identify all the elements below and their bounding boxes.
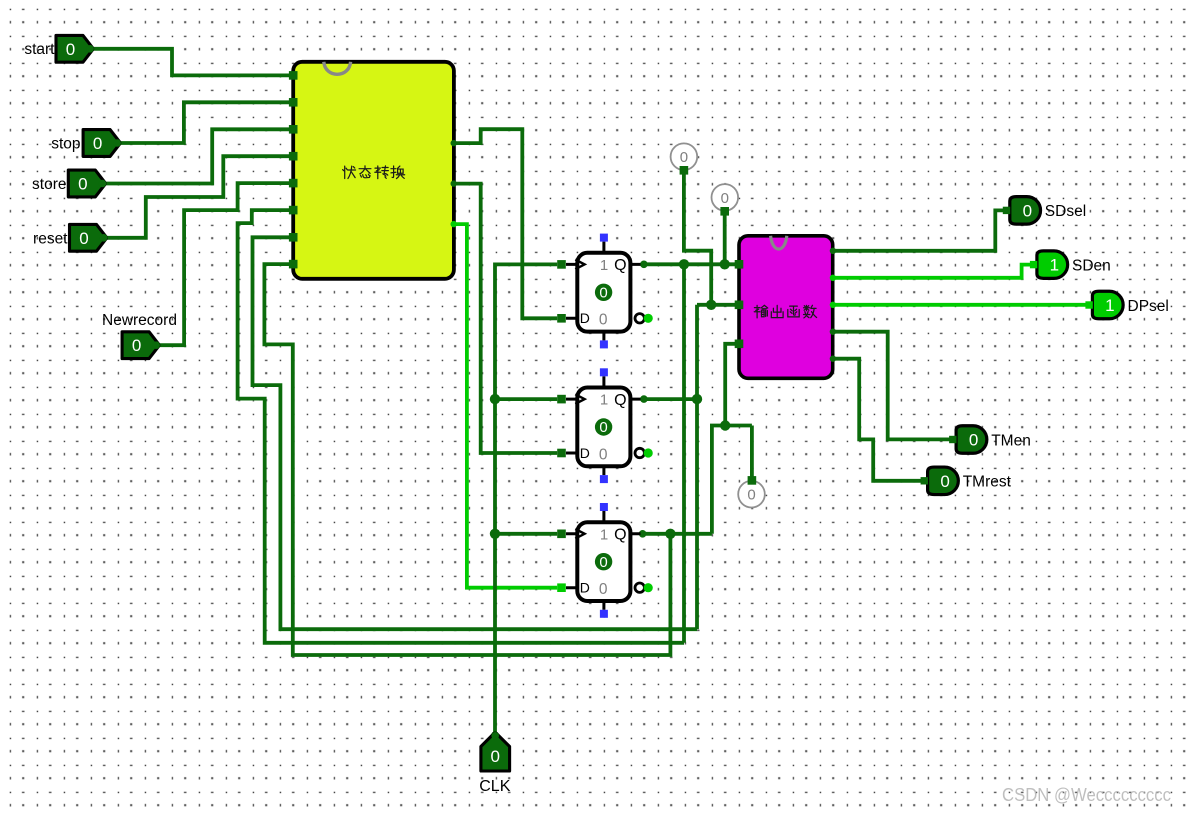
U1 input port 8 (289, 260, 298, 269)
input pin Newrecord (122, 332, 159, 359)
wire CLK branch FF2 (495, 397, 557, 401)
wire FF1 Q to U2 output-function pin1 (641, 262, 740, 266)
probe P1 value 0 (671, 143, 698, 170)
wire FF2 Q vertical riser (695, 305, 699, 629)
wire U2 out5 to TMrest (833, 359, 922, 481)
svg-text:CLK: CLK (479, 778, 510, 795)
junction FF3 Q feedback (665, 529, 675, 539)
svg-text:0: 0 (132, 336, 141, 355)
wire FF3 Q to probe P3 (750, 426, 754, 479)
svg-text:1: 1 (1050, 256, 1059, 275)
junction FF2 Q riser (692, 394, 702, 404)
svg-text:DPsel: DPsel (1128, 298, 1169, 315)
svg-text:Q: Q (614, 257, 626, 274)
svg-text:1: 1 (600, 392, 608, 409)
input pin start (56, 35, 93, 62)
svg-text:store: store (32, 176, 66, 193)
wire FF3 Q riser to node (712, 426, 752, 534)
svg-text:D: D (580, 580, 590, 596)
wire net stop to U1 pin2 (120, 102, 293, 143)
wire U2 out4 to TMen (833, 332, 951, 440)
D flip-flop FF3 (566, 503, 653, 618)
svg-text:0: 0 (599, 446, 608, 463)
svg-text:TMen: TMen (991, 432, 1031, 449)
U2 label 输出函数 (754, 305, 767, 318)
svg-text:CSDN @Weccccccccc: CSDN @Weccccccccc (1002, 785, 1171, 805)
output pin SDen (1037, 251, 1068, 279)
wire net reset to U1 pin4 (103, 156, 294, 238)
U1 label 状态转换 (343, 166, 356, 178)
U1 input port 5 (289, 179, 298, 188)
wire FF1 Q feedback vertical (682, 264, 686, 643)
input pin CLK (481, 733, 510, 771)
input pin reset (70, 224, 107, 251)
U1 input port 1 (289, 71, 298, 80)
U2 input port 1 (735, 260, 744, 269)
svg-text:0: 0 (940, 472, 949, 491)
svg-text:SDsel: SDsel (1045, 203, 1086, 220)
wire U1 out3 to FF3 D (high) (454, 224, 557, 588)
junction FF3 Q stub (639, 530, 647, 538)
wire probe P1 chain (684, 170, 711, 304)
svg-text:0: 0 (599, 285, 607, 302)
svg-text:SDen: SDen (1072, 257, 1111, 274)
U1 input port 3 (289, 125, 298, 134)
D flip-flop FF1 (566, 234, 653, 349)
probe P3 value 0 (738, 481, 765, 508)
probe P2 value 0 (712, 184, 739, 211)
TMen connector nub (949, 436, 956, 443)
FF1 clock input nub (557, 260, 566, 269)
svg-text:stop: stop (51, 136, 80, 153)
FF3 D input nub (557, 583, 566, 592)
junction probe P2 tap (720, 259, 730, 269)
svg-text:start: start (24, 41, 55, 58)
svg-text:Newrecord: Newrecord (102, 312, 177, 329)
wire U1 out1 to FF1 D (454, 129, 557, 318)
input pin store (68, 170, 105, 197)
wire probe P2 stub (723, 211, 727, 264)
U2 orientation notch (771, 236, 787, 249)
junction FF1 Q feedback (679, 259, 689, 269)
svg-text:D: D (580, 445, 590, 461)
svg-text:D: D (580, 310, 590, 326)
wire CLK trunk (495, 264, 557, 735)
junction FF3 Q node A (720, 420, 730, 430)
FF3 clock input nub (557, 530, 566, 539)
svg-text:Q: Q (614, 392, 626, 409)
wire U2 out2 to SDen (high) (833, 265, 1031, 278)
FF2 D input nub (557, 449, 566, 458)
subcircuit U2 output-function box (739, 236, 833, 378)
svg-text:0: 0 (599, 581, 608, 598)
subcircuit U1 state-transition box (293, 62, 454, 279)
SDsel connector nub (1003, 207, 1010, 214)
svg-text:0: 0 (79, 229, 88, 248)
svg-text:0: 0 (721, 190, 729, 207)
wire U1 out2 to FF2 D (454, 184, 557, 453)
svg-text:1: 1 (600, 257, 608, 274)
wire FF2 Q feedback bottom bus (253, 237, 698, 629)
svg-text:0: 0 (969, 431, 978, 450)
U2 output port 5 (830, 356, 836, 362)
U1 input port 6 (289, 206, 298, 215)
DPsel connector nub (1085, 301, 1092, 308)
U2 output port 1 (830, 248, 836, 254)
wire FF2 Q output (641, 397, 698, 401)
U2 output port 4 (830, 329, 836, 335)
svg-text:0: 0 (680, 149, 688, 166)
SDen connector nub (1030, 261, 1037, 268)
svg-text:0: 0 (747, 487, 755, 504)
wire FF2 Q to U2 pin2 (697, 303, 739, 307)
wire U2 out3 to DPsel (high) (833, 303, 1086, 307)
junction CLK FF3 branch (490, 529, 500, 539)
svg-text:0: 0 (599, 554, 607, 571)
junction FF2 Q stub (640, 395, 648, 403)
wire FF3 Q to U2 pin3 (725, 344, 739, 426)
svg-text:0: 0 (490, 747, 499, 766)
wire net start to U1 pin1 (93, 49, 294, 76)
U1 output port 1 (451, 140, 457, 146)
wire FF3 Q feedback bottom bus (264, 264, 670, 655)
U1 input port 2 (289, 98, 298, 107)
D flip-flop FF2 (566, 368, 653, 483)
U2 output port 3 (high) (830, 302, 836, 308)
output pin TMen (956, 426, 987, 454)
wire FF3 Q output (641, 532, 712, 536)
svg-text:0: 0 (78, 175, 87, 194)
U2 output port 2 (high) (830, 275, 836, 281)
U1 input port 4 (289, 152, 298, 161)
svg-text:1: 1 (1105, 296, 1114, 315)
wire net store to U1 pin3 (103, 129, 294, 183)
svg-text:0: 0 (93, 134, 102, 153)
junction CLK FF2 branch (490, 394, 500, 404)
U1 output port 2 (451, 180, 457, 186)
junction CLK pin tip (491, 731, 499, 739)
FF2 clock input nub (557, 395, 566, 404)
wire CLK branch FF3 (495, 532, 557, 536)
svg-text:Q: Q (614, 527, 626, 544)
output pin TMrest (928, 467, 959, 495)
wire net Newrecord to U1 pin5 (159, 183, 294, 345)
output pin SDsel (1010, 197, 1041, 225)
svg-text:0: 0 (599, 419, 607, 436)
svg-text:0: 0 (599, 312, 608, 329)
U2 input port 2 (735, 301, 744, 310)
U1 orientation notch (324, 62, 351, 75)
junction probe P1 tap (706, 300, 716, 310)
svg-text:reset: reset (33, 230, 68, 247)
U1 input port 7 (289, 233, 298, 242)
svg-text:1: 1 (600, 526, 608, 543)
svg-text:0: 0 (1023, 201, 1032, 220)
junction FF1 Q stub (640, 261, 648, 269)
TMrest connector nub (921, 477, 928, 484)
wire U2 out1 to SDsel (833, 210, 1004, 250)
svg-text:TMrest: TMrest (963, 474, 1012, 491)
U1 output port 3 (high) (451, 221, 457, 227)
input pin stop (83, 130, 120, 157)
wire FF1 Q feedback bottom bus (238, 210, 684, 643)
FF1 D input nub (557, 314, 566, 323)
output pin DPsel (1092, 291, 1123, 319)
U2 input port 3 (735, 340, 744, 349)
svg-text:0: 0 (66, 40, 75, 59)
